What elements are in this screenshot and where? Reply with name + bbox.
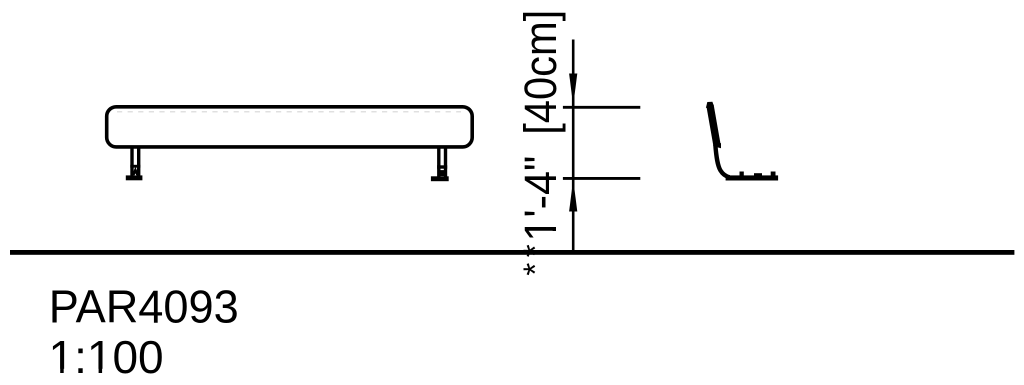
left leg clamp detail [133,170,137,175]
side view plank top tip [706,102,714,108]
runner low ridge [754,173,762,176]
left leg foot [126,175,143,180]
dimension top extension tick [563,106,640,109]
left leg crossbar [130,165,140,168]
svg-text:**: ** [517,239,554,276]
svg-text:1'-4": 1'-4" [516,156,566,242]
ground line [10,250,1014,255]
left leg right line [137,148,140,177]
side view plank bottom notch [714,142,721,149]
side view curved leg [715,145,729,178]
right leg clamp detail [440,170,444,176]
serif patch rotated digit 1 [552,219,557,227]
bench seat plank (front view) [107,107,473,147]
serif patch digit 1 of 100 [90,369,99,374]
serif patch digit 1 (scale label) [51,369,60,374]
dimension arrow pointing down [569,74,577,106]
faint dashed inner line under seat top [117,111,461,113]
right leg right line [444,148,447,177]
left leg left line [130,148,133,177]
right leg foot [431,176,449,181]
right leg left line [437,148,440,177]
side view seat plank (angled bar) [710,105,717,145]
svg-text:PAR4093: PAR4093 [49,281,239,332]
dimension vertical line [572,40,575,253]
dimension bottom extension tick [563,177,640,180]
right leg crossbar [437,165,447,168]
svg-text:1:100: 1:100 [49,331,164,383]
runner bump 2 [771,172,776,177]
side view bottom runner [726,175,779,180]
dimension arrow pointing up [569,179,577,211]
runner bump 1 [740,172,744,177]
svg-text:[40cm]: [40cm] [517,10,567,135]
